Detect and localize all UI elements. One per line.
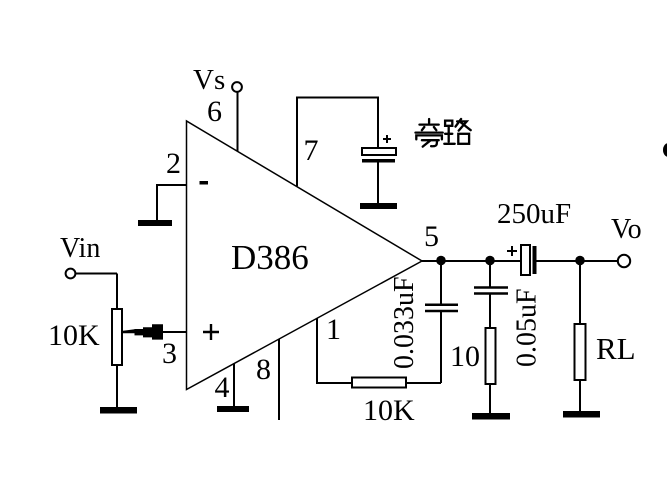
svg-text:4: 4 <box>215 371 230 404</box>
svg-text:10K: 10K <box>363 394 415 427</box>
svg-text:8: 8 <box>256 353 271 386</box>
svg-text:0.033uF: 0.033uF <box>389 276 420 369</box>
svg-text:1: 1 <box>326 313 341 346</box>
svg-text:250uF: 250uF <box>497 198 571 230</box>
svg-text:2: 2 <box>166 147 181 180</box>
svg-text:10K: 10K <box>48 319 100 352</box>
svg-text:5: 5 <box>424 220 439 253</box>
svg-text:Vs: Vs <box>193 64 225 96</box>
svg-text:7: 7 <box>304 134 319 167</box>
svg-text:10: 10 <box>450 340 480 373</box>
svg-text:Vin: Vin <box>60 233 100 264</box>
svg-text:Vo: Vo <box>611 214 642 245</box>
svg-text:RL: RL <box>596 331 636 366</box>
svg-text:3: 3 <box>162 337 177 370</box>
svg-text:0.05uF: 0.05uF <box>512 288 543 367</box>
svg-text:D386: D386 <box>231 238 309 277</box>
svg-text:6: 6 <box>207 95 222 128</box>
